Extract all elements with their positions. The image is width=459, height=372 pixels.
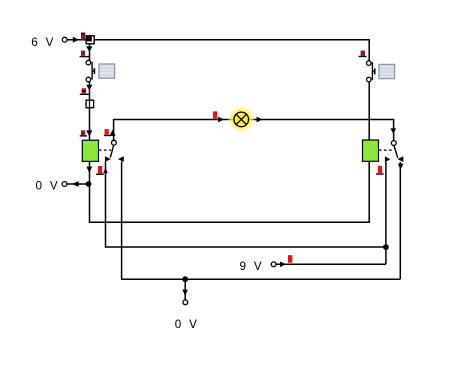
wire 0V left terminal to node [67,183,89,185]
lamp L1 [234,112,249,127]
probe marker red before lamp [213,111,217,118]
relay1 changeover switch [105,140,124,162]
fuse F1 [86,100,94,108]
probe marker red above fuse [80,88,90,94]
wire 6V terminal to junction [67,39,86,41]
node 6V junction box [86,36,94,44]
svg-text:9 V: 9 V [240,260,264,273]
relay link dashed K2 [379,149,392,151]
terminal 6 V [62,37,67,42]
probe marker red on relay1 pole wire [104,129,111,135]
current arrow down on relay2 pole wire [390,128,396,133]
terminal 0 V bottom [183,300,188,305]
current arrow left on 0V wire [72,181,78,187]
probe marker red at relay2 left contact wire [376,166,384,174]
wire 9V terminal to junction [276,263,386,265]
push button pad SW1 [99,64,115,78]
lamp glow [227,105,255,133]
wire relay2 right contact down to 0V rail [399,162,401,279]
current arrow right on 6V wire [73,37,79,43]
wire junction to push switch SW1 [89,44,91,61]
probe marker dark red below junction [80,51,90,57]
wire coil K1 bottom to 0V node and bottom rail to coil K2 bottom [90,161,370,222]
node B 9V rail junction [383,244,389,250]
wire lamp rail with pole drops [114,120,394,141]
svg-text:0 V: 0 V [175,318,199,331]
wire top rail to right branch [94,40,369,61]
wire push switch SW2 to coil K2 top [368,82,370,140]
current arrow right on 9V wire [280,262,286,268]
current arrow down at coil1 top [86,130,92,136]
wire relay1 right contact down to 0V rail [122,161,401,279]
svg-text:6 V: 6 V [31,36,55,49]
wire SW1 to fuse F1 [89,82,91,100]
relay coil K2 [363,140,379,161]
current arrow right after lamp [257,117,263,123]
current arrow down above fuse [86,85,92,91]
node C 0V rail junction [182,276,188,282]
relay link dashed K1 [99,149,111,151]
push switch SW1 [86,60,94,81]
current arrow down below junction [86,46,92,52]
terminal 9 V [271,262,276,267]
current arrow up on relay1 pole wire [110,130,116,136]
relay2 changeover switch [385,141,403,163]
probe marker dark red right branch top [359,51,367,57]
wire relay1 left contact down to 9V rail [106,161,386,247]
current arrow right before lamp [218,117,224,123]
current arrow down on relay2 right contact wire [398,164,404,170]
current arrow down at coil1 bottom [86,167,92,173]
node A coil1/0V junction [86,181,92,187]
current arrow down to 0V bottom terminal [182,290,188,296]
wire relay2 left contact down to 9V junction [385,162,387,264]
svg-text:0 V: 0 V [36,180,60,193]
relay coil K1 [82,140,98,161]
push switch SW2 [367,61,375,82]
probe marker dark red at 6V junction [81,33,85,40]
push button pad SW2 [379,64,395,78]
probe marker red on 9V wire [288,255,292,263]
probe marker red on relay1 left contact wire [96,166,104,174]
wire fuse F1 to coil K1 [89,108,91,141]
wire 0V bottom terminal stub [184,279,186,300]
current arrow up on relay1 left contact wire [103,168,108,174]
probe marker dark red at coil1 top [80,130,87,136]
terminal 0 V left [62,182,67,187]
